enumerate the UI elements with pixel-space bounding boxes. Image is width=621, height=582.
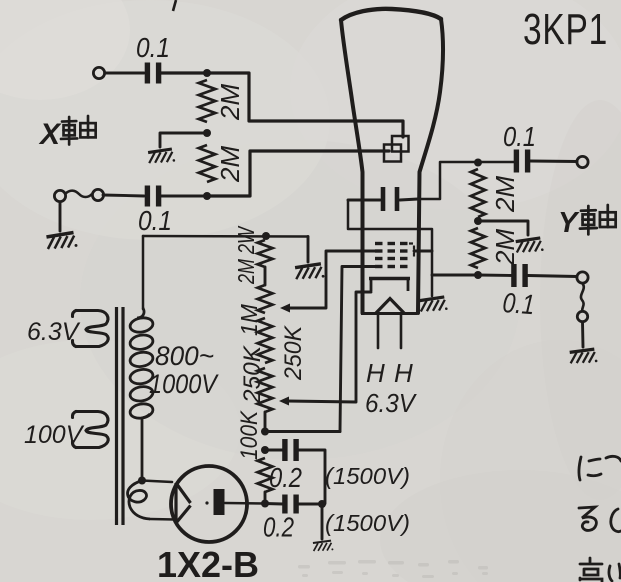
svg-text:0.1: 0.1 [503,121,536,152]
svg-text:H: H [366,358,385,388]
svg-text:250K: 250K [280,325,307,381]
svg-text:0.1: 0.1 [502,287,536,320]
svg-text:800~: 800~ [155,341,214,371]
svg-text:0.1: 0.1 [136,32,170,63]
svg-text:100V: 100V [24,421,85,449]
svg-text:(1500V): (1500V) [325,463,410,489]
svg-text:2M 2W: 2M 2W [233,225,259,285]
svg-text:6.3V: 6.3V [365,388,417,418]
svg-text:6.3V: 6.3V [27,318,81,346]
svg-text:(1500V): (1500V) [325,510,410,536]
svg-text:Y: Y [558,207,580,239]
svg-text:H: H [394,358,413,388]
svg-text:2M: 2M [215,84,245,121]
svg-text:2M: 2M [215,146,245,183]
svg-text:3KP1: 3KP1 [523,5,608,54]
svg-text:250K: 250K [239,345,266,404]
svg-text:2M: 2M [490,176,520,213]
svg-text:0.1: 0.1 [138,205,172,236]
svg-text:X: X [38,118,62,151]
svg-text:2M: 2M [490,229,520,266]
svg-text:1000V: 1000V [149,369,220,399]
svg-text:100K: 100K [236,410,263,460]
svg-text:0.2: 0.2 [263,512,294,543]
svg-text:1X2-B: 1X2-B [157,544,259,582]
